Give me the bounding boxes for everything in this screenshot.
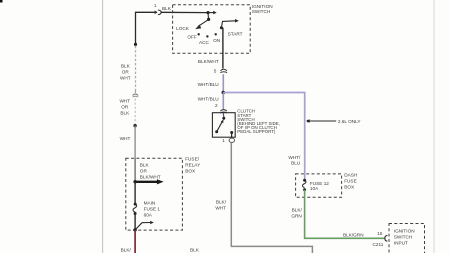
pin 2 label (215, 103, 218, 108)
label FUSE/ RELAY BOX (185, 157, 201, 174)
svg-text:WHT: WHT (120, 136, 131, 141)
svg-text:BLU: BLU (291, 160, 301, 165)
label BLK/GRN horizontal (343, 232, 364, 237)
svg-text:SWITCH: SWITCH (252, 9, 270, 14)
wire to main fuse (134, 182, 136, 204)
wire WHT OR BLK dashed (134, 99, 136, 125)
wire WHT/BLU branch to 2.6L (223, 93, 304, 181)
page border right (433, 0, 435, 253)
wire label BLK (162, 6, 172, 11)
svg-text:SWITCH: SWITCH (394, 235, 413, 240)
label WHT (120, 136, 131, 141)
label WHT OR BLK (119, 99, 130, 116)
svg-text:ON: ON (213, 38, 220, 43)
label FUSE 12 10A (310, 181, 329, 191)
label START (228, 31, 243, 36)
svg-text:BLK: BLK (120, 111, 130, 116)
wire WHT/BLU to clutch switch (222, 93, 224, 110)
label BLK/WHT (198, 59, 219, 64)
label DASH FUSE BOX (344, 173, 357, 190)
ignition switch box U1 (173, 5, 251, 54)
svg-text:BLK/: BLK/ (216, 200, 227, 205)
node WHT/BLU branch junction (222, 91, 226, 95)
wire BLK/WHT from START down (222, 28, 224, 69)
svg-text:BLK/: BLK/ (121, 247, 132, 252)
svg-text:60A: 60A (144, 213, 153, 218)
node junction above WHT label (133, 124, 136, 127)
svg-text:BOX: BOX (344, 185, 355, 190)
pin 1 label clutch (222, 138, 225, 143)
svg-text:PEDAL SUPPORT): PEDAL SUPPORT) (237, 129, 276, 134)
svg-text:LOCK: LOCK (176, 26, 190, 31)
svg-text:BLK: BLK (140, 163, 150, 168)
svg-text:BLK: BLK (121, 64, 131, 69)
svg-text:WHT: WHT (119, 99, 130, 104)
clutch switch arm (215, 119, 223, 133)
wire inside fuse relay box (134, 158, 136, 182)
svg-text:FUSE 1: FUSE 1 (144, 207, 161, 212)
svg-text:5: 5 (214, 69, 217, 74)
pin 1 label (154, 3, 157, 8)
dash fuse box (296, 174, 342, 197)
switch wiper pivot (207, 13, 210, 21)
svg-text:BLK: BLK (162, 6, 172, 11)
label 2.6L ONLY (338, 119, 362, 124)
contact ON (215, 33, 217, 35)
svg-text:BLK/GRN: BLK/GRN (343, 232, 364, 237)
arrow 2.6L ONLY callout (306, 119, 336, 123)
label BLK OR WHT (120, 64, 131, 81)
label C211 (373, 242, 384, 247)
corner artifact (0, 0, 3, 3)
thick feed arrow (135, 179, 164, 184)
svg-text:OR: OR (121, 105, 129, 110)
svg-text:INPUT: INPUT (394, 241, 408, 246)
svg-text:BLK/WHT: BLK/WHT (140, 175, 161, 180)
svg-text:START: START (228, 31, 243, 36)
switch wiper arm to LOCK (195, 19, 208, 29)
label BLK OR BLK/WHT (140, 163, 161, 180)
svg-text:10A: 10A (310, 186, 319, 191)
wire BLK top horizontal to ignition switch (136, 12, 209, 44)
svg-text:WHT/BLU: WHT/BLU (198, 97, 220, 102)
svg-text:MAIN: MAIN (144, 201, 156, 206)
label BLK bottom middle (190, 247, 200, 252)
label CLUTCH START SWITCH (237, 109, 280, 135)
label IGNITION SWITCH INPUT (394, 229, 415, 246)
label OFF (187, 35, 197, 40)
svg-text:WHT: WHT (120, 76, 131, 81)
inline connector on left wire (133, 91, 139, 98)
svg-text:1: 1 (222, 138, 225, 143)
svg-text:BLK: BLK (190, 247, 200, 252)
svg-text:FUSE: FUSE (344, 179, 357, 184)
label ON (213, 38, 220, 43)
wire BLK/WHT from clutch switch to bottom (231, 142, 312, 253)
svg-text:WHT: WHT (215, 206, 226, 211)
label WHT/BLU right (288, 155, 301, 165)
contact OFF (198, 33, 200, 35)
svg-text:ACC: ACC (199, 40, 210, 45)
svg-text:2.6L ONLY: 2.6L ONLY (338, 119, 362, 124)
svg-text:FUSE 12: FUSE 12 (310, 181, 329, 186)
pin 16 label (377, 231, 383, 236)
clutch start switch box S1 (212, 113, 235, 138)
svg-text:1: 1 (154, 3, 157, 8)
svg-text:BOX: BOX (185, 169, 196, 174)
wire fuse to bottom junction (134, 214, 136, 230)
clutch switch top contact (222, 113, 225, 120)
label ACC (199, 40, 210, 45)
wire BLK OR WHT dashed (135, 46, 137, 92)
node feed junction (133, 180, 136, 183)
wire WHT/BLU upper (222, 74, 224, 92)
connector 2 (220, 110, 227, 113)
fuse F1 MAIN (133, 203, 137, 215)
contact ACC (206, 35, 208, 37)
label LOCK (176, 26, 190, 31)
connector 1 (155, 10, 162, 15)
label BLK/WHT lower (215, 200, 226, 211)
connector C211 (385, 235, 387, 241)
wire WHT into fuse relay box (134, 126, 136, 159)
label MAIN FUSE 1 60A (144, 201, 161, 218)
label WHT/BLU lower (198, 97, 220, 102)
arrow right of input junction (208, 11, 217, 15)
label BLK/GRN left (291, 207, 302, 218)
branch arrow at bottom junction (135, 221, 154, 230)
svg-text:RELAY: RELAY (185, 163, 201, 168)
connector 5 (220, 69, 227, 72)
ignition switch input box (389, 224, 425, 253)
svg-text:FUSE/: FUSE/ (185, 157, 200, 162)
svg-text:GRN: GRN (291, 213, 301, 218)
svg-text:IGNITION: IGNITION (394, 229, 415, 234)
svg-text:2: 2 (215, 103, 218, 108)
page border left (102, 0, 104, 253)
svg-text:OR: OR (140, 169, 148, 174)
svg-text:BLK/WHT: BLK/WHT (198, 59, 219, 64)
fuse F12 (303, 179, 307, 192)
node bottom junction (133, 228, 136, 231)
contact START with arm arrow (220, 19, 239, 29)
label BLK/ bottom left (121, 247, 132, 252)
svg-text:BLK/: BLK/ (292, 207, 303, 212)
svg-text:C211: C211 (373, 242, 384, 247)
node ignition input junction (206, 11, 209, 14)
wire BLK/GRN (305, 190, 385, 239)
label WHT/BLU (198, 82, 220, 87)
node junction on left wire (134, 43, 137, 46)
svg-text:OFF: OFF (187, 35, 197, 40)
label IGNITION SWITCH (252, 4, 273, 14)
svg-text:OR: OR (122, 70, 130, 75)
clutch switch output contact (230, 131, 233, 139)
fuse relay box (126, 158, 183, 230)
connector oval below clutch switch (229, 138, 234, 142)
wire BLK bottom left (134, 230, 136, 253)
svg-text:WHT/BLU: WHT/BLU (198, 82, 220, 87)
pin 5 label (214, 69, 217, 74)
svg-text:16: 16 (377, 231, 383, 236)
svg-text:DASH: DASH (344, 173, 357, 178)
